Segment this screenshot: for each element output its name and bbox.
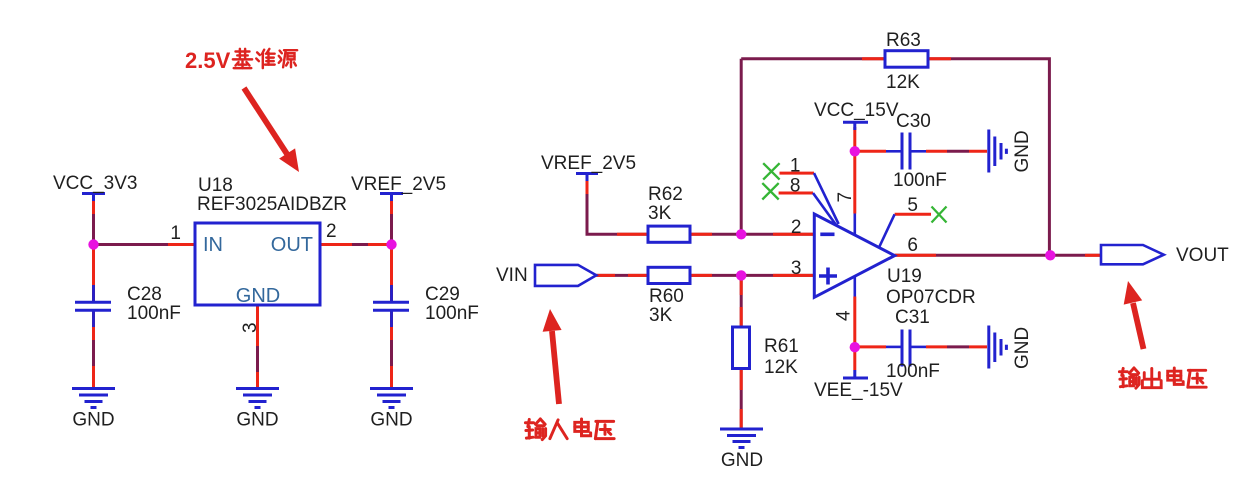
svg-text:VOUT: VOUT [1176,245,1229,266]
svg-text:GND: GND [370,410,412,431]
svg-text:OUT: OUT [271,234,313,256]
svg-text:100nF: 100nF [425,303,479,324]
svg-text:6: 6 [907,235,918,256]
svg-text:C31: C31 [895,307,930,328]
svg-text:1: 1 [790,156,801,177]
svg-text:8: 8 [790,176,801,197]
svg-text:VCC_15V: VCC_15V [814,100,899,121]
svg-text:2: 2 [791,217,802,238]
svg-text:3K: 3K [649,305,673,326]
svg-text:VIN: VIN [496,265,528,286]
svg-text:3: 3 [240,322,261,333]
svg-text:VEE_-15V: VEE_-15V [814,380,903,401]
svg-text:OP07CDR: OP07CDR [886,287,976,308]
svg-text:REF3025AIDBZR: REF3025AIDBZR [197,194,347,215]
svg-text:R60: R60 [649,286,684,307]
svg-text:C28: C28 [127,284,162,305]
svg-text:12K: 12K [886,72,920,93]
svg-text:VREF_2V5: VREF_2V5 [351,174,446,195]
svg-text:2: 2 [326,221,337,242]
svg-text:R61: R61 [764,336,799,357]
svg-text:4: 4 [834,310,855,321]
svg-text:1: 1 [170,223,181,244]
svg-text:GND: GND [236,410,278,431]
svg-text:100nF: 100nF [893,170,947,191]
svg-text:VCC_3V3: VCC_3V3 [53,173,138,194]
svg-text:VREF_2V5: VREF_2V5 [541,153,636,174]
svg-text:7: 7 [835,192,856,203]
svg-text:3: 3 [791,258,802,279]
svg-text:IN: IN [203,234,223,256]
svg-text:5: 5 [907,195,918,216]
svg-text:U18: U18 [198,175,233,196]
svg-text:R62: R62 [648,184,683,205]
svg-text:GND: GND [72,410,114,431]
svg-text:3K: 3K [648,203,672,224]
svg-text:C30: C30 [896,111,931,132]
svg-text:C29: C29 [425,284,460,305]
svg-text:U19: U19 [887,266,922,287]
svg-text:100nF: 100nF [886,361,940,382]
svg-text:12K: 12K [764,357,798,378]
svg-text:R63: R63 [886,30,921,51]
svg-text:GND: GND [1012,327,1033,369]
svg-text:100nF: 100nF [127,303,181,324]
svg-text:2.5V: 2.5V [185,48,231,73]
svg-text:GND: GND [721,450,763,471]
svg-text:GND: GND [1012,130,1033,172]
svg-text:GND: GND [236,285,280,307]
